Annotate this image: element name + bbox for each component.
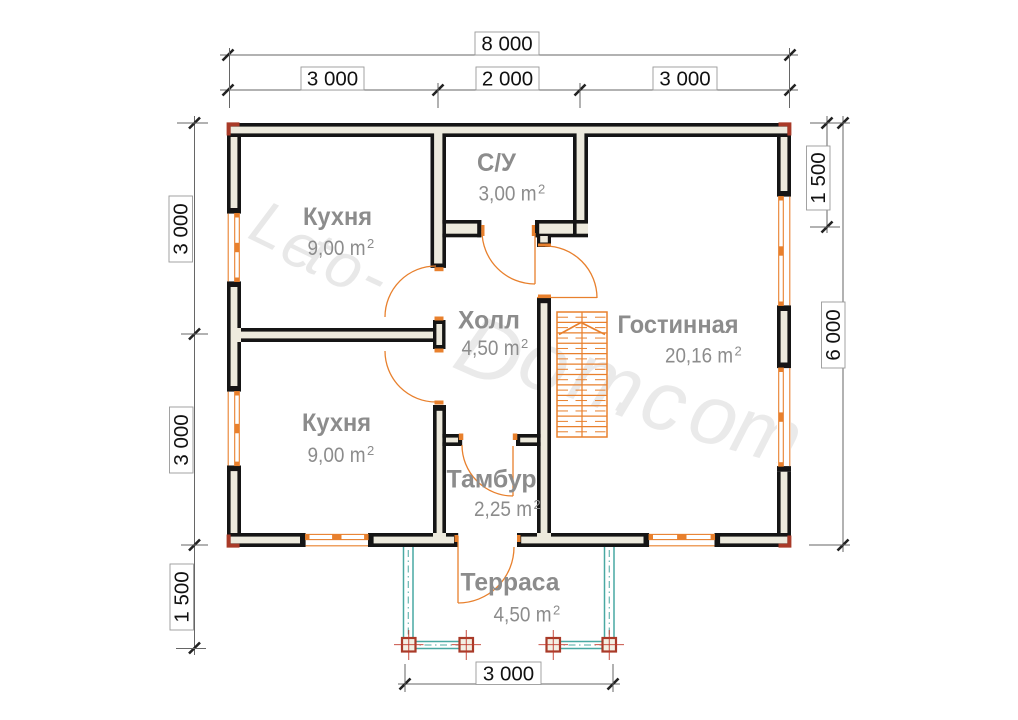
staircase bbox=[557, 312, 607, 437]
door tambour arc bbox=[462, 445, 513, 496]
window left wall upper bbox=[227, 214, 229, 282]
interior wall cores bbox=[431, 126, 447, 267]
svg-text:2: 2 bbox=[553, 603, 560, 618]
svg-text:2: 2 bbox=[538, 182, 545, 197]
svg-text:3 000: 3 000 bbox=[169, 203, 192, 254]
svg-text:1 500: 1 500 bbox=[807, 152, 830, 203]
dim 3000 left-1 label bbox=[169, 196, 193, 262]
svg-text:6 000: 6 000 bbox=[822, 309, 845, 360]
terrace railings bbox=[403, 547, 405, 640]
top dimension lines bbox=[220, 54, 798, 56]
door kitchen2 arc bbox=[385, 351, 436, 402]
window bottom wall left bbox=[306, 545, 368, 547]
dim 3000 top-left label bbox=[301, 67, 364, 91]
kitchens partition wall with T-cap bbox=[241, 328, 433, 332]
tambour left wall with top cap bbox=[433, 405, 437, 533]
svg-text:4,50 m: 4,50 m bbox=[462, 337, 520, 360]
right dimension lines bbox=[826, 116, 828, 233]
dim 1500 left label bbox=[170, 564, 194, 630]
svg-text:1 500: 1 500 bbox=[170, 571, 193, 622]
dim 2000 label bbox=[476, 67, 539, 91]
svg-text:С/У: С/У bbox=[477, 149, 516, 177]
svg-text:2: 2 bbox=[521, 336, 528, 351]
door jamb marks bbox=[481, 225, 484, 236]
dim 6000 right label bbox=[822, 302, 846, 368]
living room door upper jamb stub bbox=[537, 236, 551, 247]
window right wall upper bbox=[789, 197, 791, 306]
svg-text:9,00 m: 9,00 m bbox=[308, 444, 366, 467]
dim 3000 left-2 label bbox=[170, 407, 194, 473]
svg-text:3 000: 3 000 bbox=[170, 414, 193, 465]
svg-text:3 000: 3 000 bbox=[483, 662, 534, 685]
window bottom wall right bbox=[649, 545, 714, 547]
svg-text:8 000: 8 000 bbox=[481, 33, 532, 56]
right exterior wall lines and window caps bbox=[787, 123, 791, 191]
dim 8000 label bbox=[475, 32, 539, 56]
window left wall lower bbox=[227, 392, 229, 466]
dim 3000 top-right label bbox=[653, 67, 717, 91]
svg-text:2 000: 2 000 bbox=[482, 68, 533, 91]
left exterior wall lines and window caps bbox=[227, 123, 231, 208]
bottom dimension line bbox=[398, 683, 620, 685]
svg-text:3,00 m: 3,00 m bbox=[479, 183, 537, 206]
top exterior wall lines bbox=[227, 123, 791, 127]
exterior wall openings bbox=[227, 208, 241, 287]
svg-text:Терраса: Терраса bbox=[461, 569, 561, 597]
svg-text:2: 2 bbox=[534, 497, 541, 512]
svg-text:Кухня: Кухня bbox=[302, 409, 371, 437]
bottom exterior wall lines and caps bbox=[227, 543, 300, 547]
partition SU/living bbox=[573, 133, 577, 237]
svg-text:9,00 m: 9,00 m bbox=[308, 237, 366, 260]
door kitchen1 arc bbox=[385, 266, 436, 317]
dim 1500 right label bbox=[807, 146, 831, 210]
svg-text:3 000: 3 000 bbox=[307, 68, 358, 91]
terrace posts with axis marks bbox=[402, 638, 416, 652]
svg-text:2: 2 bbox=[735, 344, 742, 359]
door terrace arc bbox=[458, 547, 514, 603]
exterior wall cores bbox=[227, 123, 791, 137]
tambour top wall with door jambs bbox=[442, 434, 462, 438]
svg-text:Гостинная: Гостинная bbox=[618, 311, 739, 339]
dim 3000 bottom label bbox=[476, 662, 541, 685]
partition kitchen1/SU with end cap bbox=[431, 133, 435, 263]
svg-text:20,16 m: 20,16 m bbox=[665, 345, 733, 368]
door living arc bbox=[545, 246, 597, 298]
svg-text:Кухня: Кухня bbox=[303, 203, 372, 231]
left dimension lines bbox=[194, 116, 196, 655]
door SU arc bbox=[482, 231, 535, 284]
hall/living wall with top cap bbox=[537, 298, 541, 533]
svg-text:2,25 m: 2,25 m bbox=[474, 498, 532, 521]
svg-text:Холл: Холл bbox=[458, 307, 520, 335]
svg-text:3 000: 3 000 bbox=[659, 68, 710, 91]
svg-text:2: 2 bbox=[367, 236, 374, 251]
SU bottom wall with door jambs bbox=[442, 220, 481, 224]
svg-text:4,50 m: 4,50 m bbox=[494, 604, 552, 627]
window right wall lower bbox=[789, 368, 791, 466]
red corner marks bbox=[227, 122, 240, 135]
svg-text:2: 2 bbox=[367, 443, 374, 458]
svg-text:Тамбур: Тамбур bbox=[447, 466, 537, 494]
